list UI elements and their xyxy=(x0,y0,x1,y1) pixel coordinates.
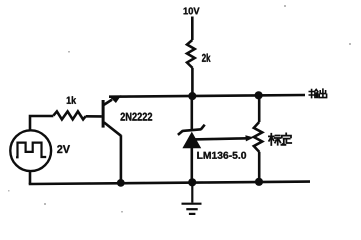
wire bottom rail (ground net) xyxy=(29,182,310,184)
wire pot bottom lead xyxy=(258,152,261,182)
wire pot top lead xyxy=(258,95,261,122)
resistor 2k body xyxy=(187,40,195,68)
node junction top rail / pot xyxy=(255,91,263,99)
wire zener anode to bottom rail xyxy=(191,148,194,182)
resistor 1k body xyxy=(53,111,85,119)
ground symbol xyxy=(182,182,202,214)
node junction top rail / 2k / LM136 xyxy=(188,92,196,100)
wire source bottom to bottom rail xyxy=(29,171,32,184)
glyph 出 xyxy=(319,89,326,97)
label LM136-5.0 xyxy=(197,152,246,159)
transistor 2N2222 base bar xyxy=(102,100,105,128)
glyph 定 xyxy=(281,133,291,145)
node junction emitter / bottom rail xyxy=(117,179,125,187)
zener reference LM136-5.0 anode triangle xyxy=(182,132,201,149)
wire emitter to bottom rail xyxy=(120,135,123,183)
transistor 2N2222 emitter lead xyxy=(104,122,121,135)
zener reference LM136-5.0 cathode bar xyxy=(178,125,205,135)
glyph 输 xyxy=(309,89,318,97)
label 1k xyxy=(67,96,76,104)
node junction pot bottom / rail xyxy=(255,178,263,186)
wire ADJ pin to pot wiper xyxy=(193,138,248,139)
wire top rail (output net) xyxy=(109,95,305,97)
source V1 square-wave symbol xyxy=(16,143,46,158)
source V1 square-wave generator circle xyxy=(10,130,51,171)
wire base lead from 1k xyxy=(86,115,102,118)
label 2V xyxy=(57,145,70,153)
glyph 标 xyxy=(269,134,281,145)
label 输出 (output) xyxy=(309,89,326,97)
potentiometer 标定 body xyxy=(254,122,262,152)
transistor 2N2222 collector lead with arrow xyxy=(104,100,112,105)
label 标定 (calibration) xyxy=(269,133,291,145)
label 2N2222 xyxy=(121,113,153,121)
pot wiper arrowhead xyxy=(245,135,254,141)
label 2k xyxy=(202,54,211,62)
wire 10V lead down to R 2k xyxy=(191,17,194,41)
wire 2k bottom lead to top rail xyxy=(191,68,194,96)
node junction ground stub / bottom rail xyxy=(188,178,196,186)
label 10V supply xyxy=(184,7,200,14)
wire source top to 1k xyxy=(30,116,53,130)
wire zener top lead from rail node xyxy=(191,96,194,130)
